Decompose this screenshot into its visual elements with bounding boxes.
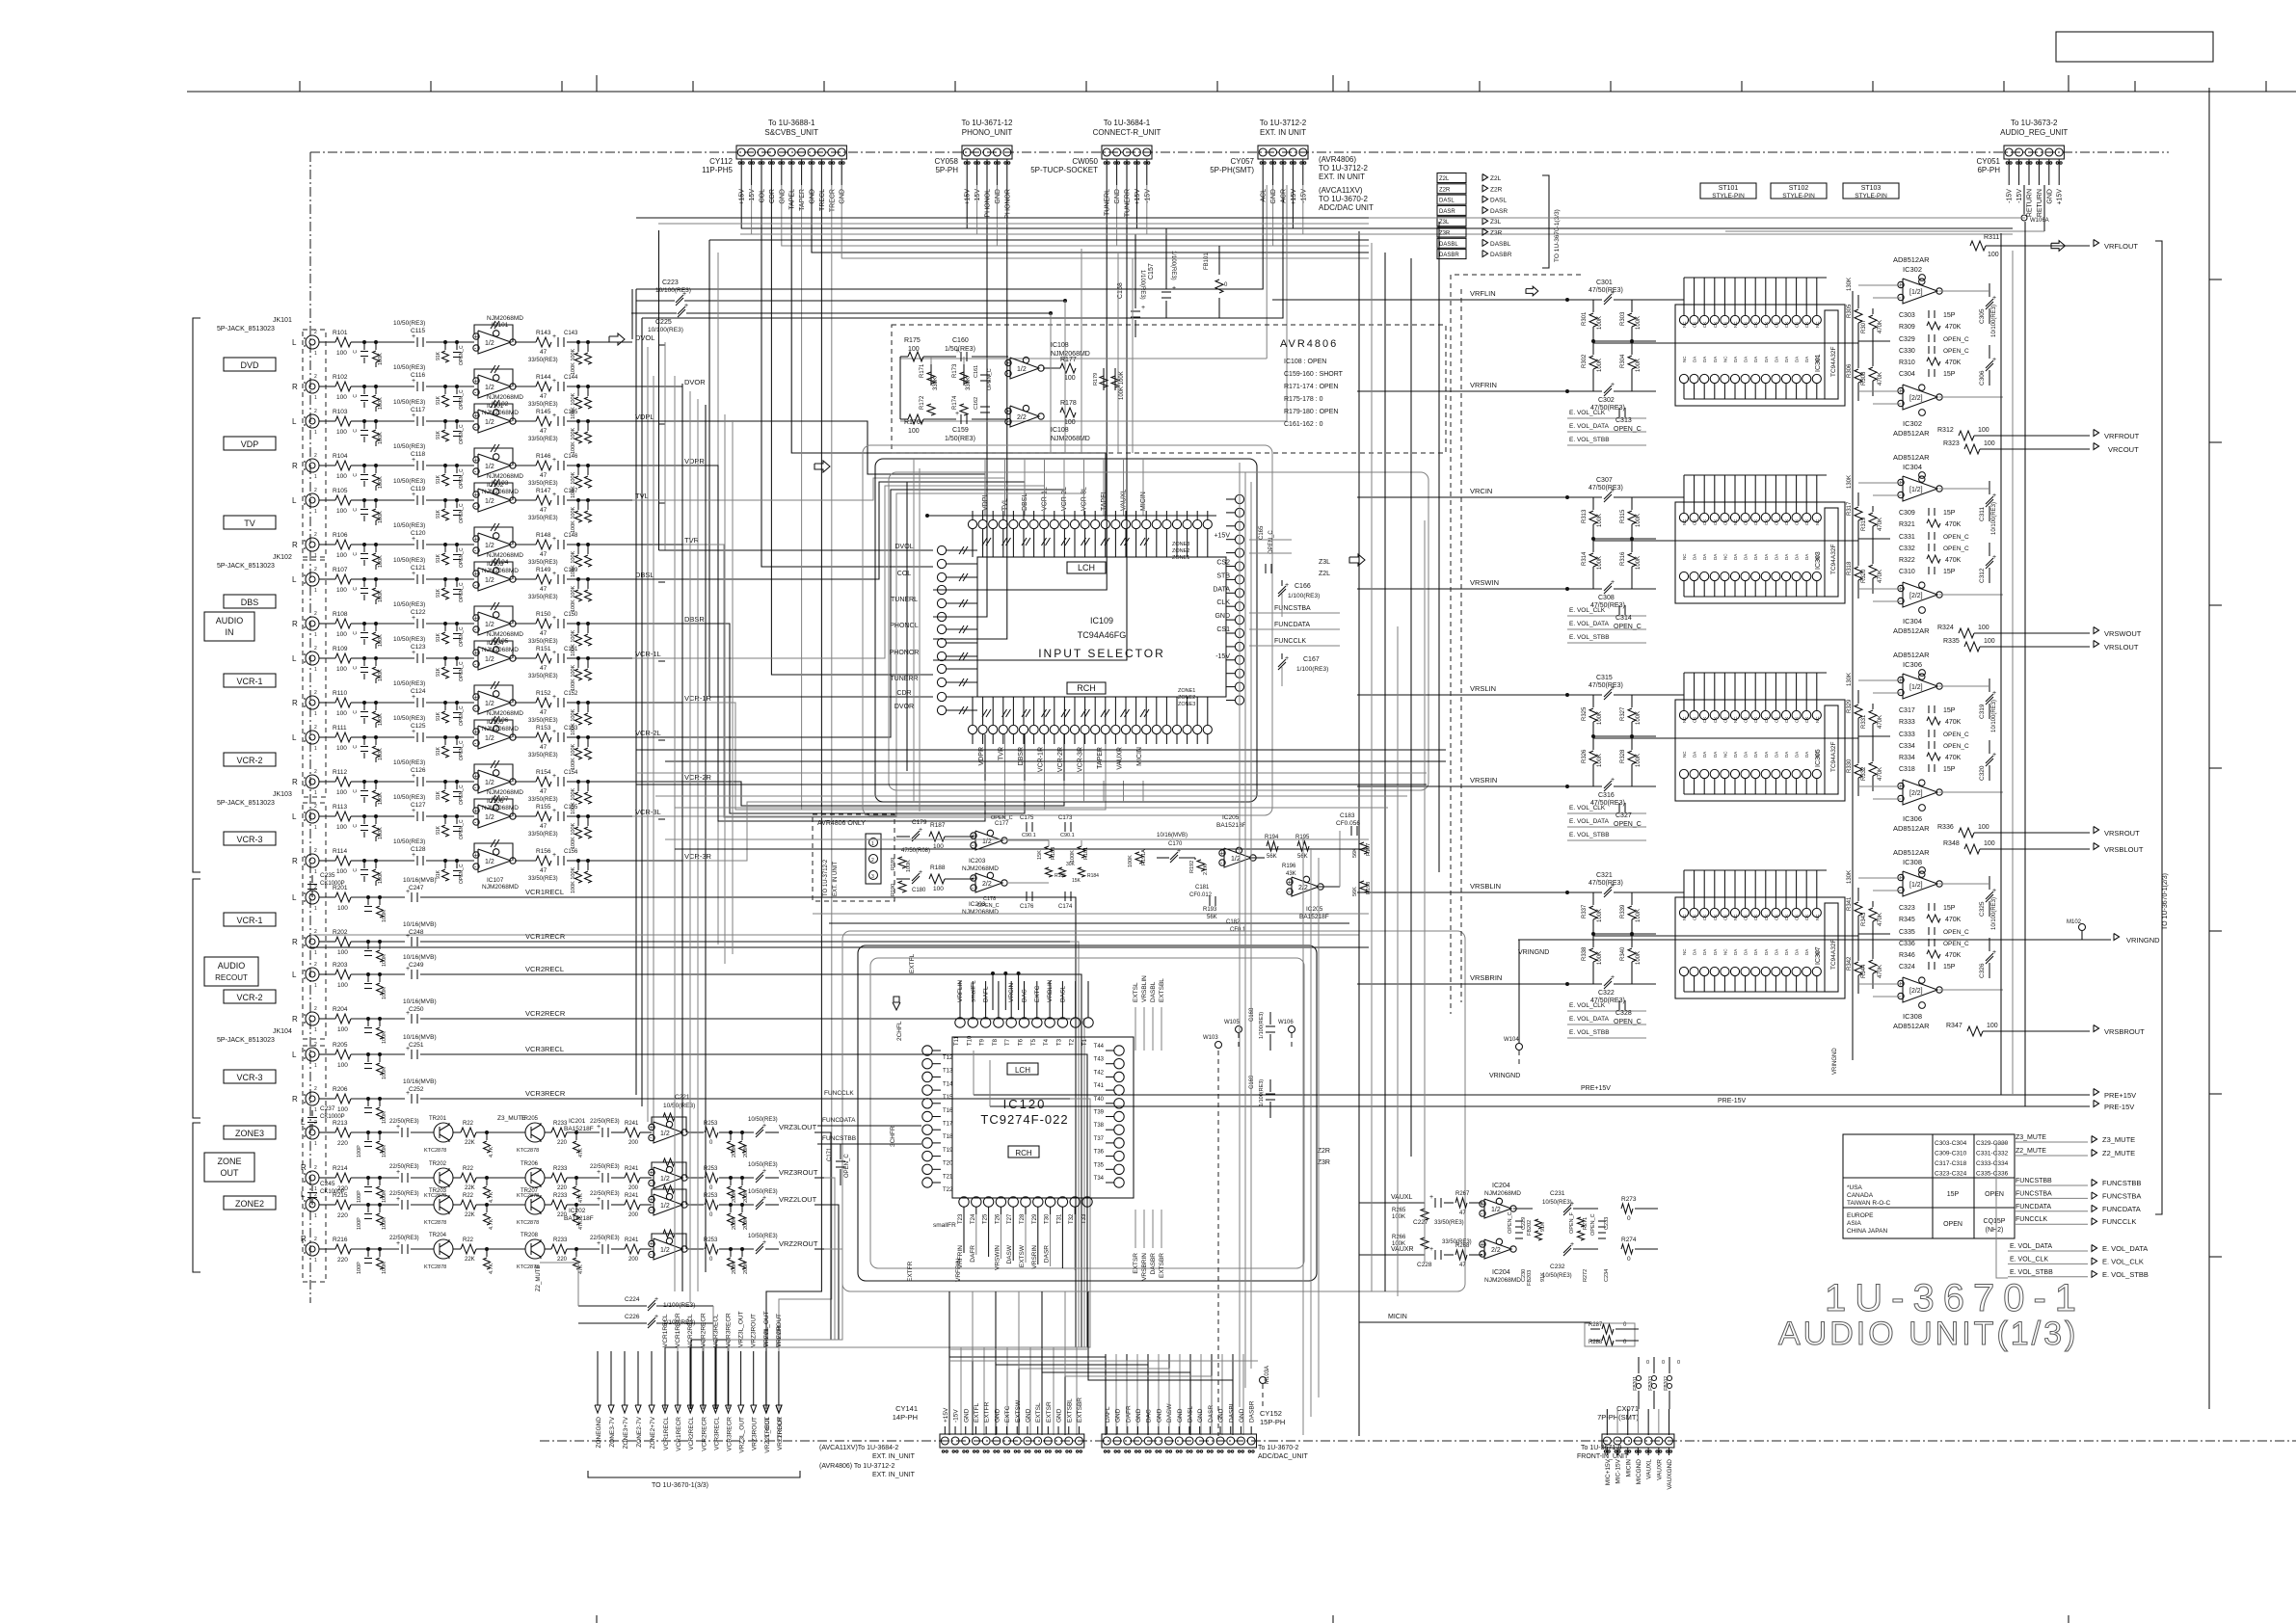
svg-text:VCR-1R: VCR-1R <box>1038 747 1045 772</box>
svg-text:47: 47 <box>540 823 547 830</box>
svg-text:PRE+15V: PRE+15V <box>2104 1091 2136 1100</box>
svg-text:VCR-3R: VCR-3R <box>1078 747 1084 772</box>
svg-text:+: + <box>919 827 922 834</box>
svg-text:DVOL: DVOL <box>894 544 913 550</box>
svg-text:ADC/DAC_UNIT: ADC/DAC_UNIT <box>1258 1453 1308 1460</box>
svg-text:Z2R: Z2R <box>1439 187 1451 193</box>
svg-text:C168: C168 <box>1249 1007 1255 1022</box>
svg-text:AD8512AR: AD8512AR <box>1893 255 1930 264</box>
svg-text:2: 2 <box>314 848 317 854</box>
svg-text:R102: R102 <box>333 374 348 381</box>
svg-text:10/50(RE3): 10/50(RE3) <box>393 320 425 327</box>
svg-text:C: C <box>353 508 359 512</box>
svg-text:TAIWAN R-O-C: TAIWAN R-O-C <box>1847 1200 1890 1207</box>
svg-text:100K: 100K <box>378 555 384 568</box>
wire COL from CY112 to IC109 <box>761 185 933 567</box>
svg-text:TVR: TVR <box>999 747 1005 760</box>
svg-text:1/2: 1/2 <box>485 780 494 786</box>
svg-text:VRZ3ROUT: VRZ3ROUT <box>752 1417 759 1450</box>
svg-text:VRBLIN: VRBLIN <box>1047 979 1054 1002</box>
CX071 vertical pin wires rising <box>1606 1409 1608 1435</box>
capacitor C162 OPEN_C <box>980 406 990 408</box>
svg-text:200K: 200K <box>732 1145 737 1157</box>
svg-text:VRSRIN: VRSRIN <box>1031 1245 1038 1269</box>
svg-text:VRSBLOUT: VRSBLOUT <box>2104 845 2144 854</box>
svg-text:-15V: -15V <box>2016 189 2023 203</box>
svg-text:DBSR: DBSR <box>684 615 705 624</box>
svg-text:NJM2068MD: NJM2068MD <box>487 789 523 796</box>
svg-text:15P-PH: 15P-PH <box>1260 1418 1285 1426</box>
IC109 bottom slash marks <box>982 709 987 717</box>
svg-text:FUNCSTBA: FUNCSTBA <box>1274 605 1311 612</box>
svg-text:L: L <box>301 1190 306 1199</box>
svg-text:R172: R172 <box>920 395 925 410</box>
svg-text:C324: C324 <box>1899 964 1915 971</box>
svg-text:E. VOL_CLK: E. VOL_CLK <box>2102 1257 2144 1265</box>
svg-text:OPEN_C: OPEN_C <box>1614 1019 1642 1025</box>
svg-text:PRE-15V: PRE-15V <box>1718 1098 1747 1104</box>
svg-text:100: 100 <box>337 905 348 912</box>
resistor R174 330K <box>960 404 968 415</box>
svg-text:+: + <box>412 571 415 577</box>
svg-text:R307: R307 <box>1861 319 1867 333</box>
svg-text:C223: C223 <box>662 279 679 286</box>
svg-text:C182: C182 <box>1226 919 1241 925</box>
svg-text:R: R <box>292 778 298 786</box>
svg-text:Z3_MUTE: Z3_MUTE <box>497 1115 526 1122</box>
svg-text:2: 2 <box>314 1237 317 1242</box>
input channel row VCR-3R: jack, resistor R114 100, op-amp IC107 NJM2068MD <box>306 854 319 867</box>
svg-text:R267: R267 <box>1455 1191 1470 1197</box>
svg-text:2: 2 <box>314 769 317 775</box>
svg-text:OPEN_C: OPEN_C <box>1943 732 1969 738</box>
svg-text:DA: DA <box>1733 554 1738 560</box>
svg-text:+: + <box>650 1170 654 1177</box>
svg-text:L: L <box>292 338 297 347</box>
svg-text:0: 0 <box>1646 1360 1649 1366</box>
svg-text:2: 2 <box>314 488 317 493</box>
svg-text:22K: 22K <box>465 1212 475 1218</box>
svg-text:10/16(MVB): 10/16(MVB) <box>403 877 437 884</box>
svg-text:FB203: FB203 <box>1527 1270 1533 1286</box>
svg-text:R107: R107 <box>333 567 348 573</box>
svg-text:R305: R305 <box>1847 304 1853 318</box>
svg-text:IC306: IC306 <box>1903 660 1922 669</box>
svg-text:100K: 100K <box>1597 316 1603 330</box>
svg-text:NC: NC <box>1682 716 1687 723</box>
block internal bus wires <box>1656 891 1684 893</box>
IC109 outer routing loop rectangles <box>875 459 1257 802</box>
svg-text:RETURN: RETURN <box>2037 189 2043 217</box>
wire GND bus from CY112 <box>782 185 1369 246</box>
resistors R194 R195 56K <box>1267 841 1278 851</box>
svg-text:2: 2 <box>314 330 317 335</box>
input channel row VDPR: jack, resistor R104 100, op-amp IC102 NJM2068MD <box>306 459 319 472</box>
svg-text:T24: T24 <box>971 1213 976 1224</box>
svg-text:TC94A32F: TC94A32F <box>1830 347 1837 377</box>
svg-text:OPEN_C: OPEN_C <box>1508 1211 1513 1234</box>
svg-text:CK: CK <box>1764 322 1769 328</box>
input channel row DBSL: jack, resistor R107 100, op-amp IC104 NJM2068MD <box>306 572 319 586</box>
svg-text:10/50(RE3): 10/50(RE3) <box>1542 1273 1572 1279</box>
zone out wires to trunk verticals <box>691 1132 831 1409</box>
svg-text:R174: R174 <box>952 395 958 410</box>
input channel row VCR-1R: jack, resistor R110 100, op-amp IC105 NJM2068MD <box>306 696 319 709</box>
svg-text:CK: CK <box>1722 717 1727 723</box>
svg-text:T27: T27 <box>1007 1213 1013 1224</box>
svg-text:CK: CK <box>1774 519 1778 525</box>
svg-text:5P-TUCP-SOCKET: 5P-TUCP-SOCKET <box>1030 166 1098 174</box>
svg-text:C: C <box>353 824 359 828</box>
svg-text:BA15218F: BA15218F <box>1299 914 1329 920</box>
jumper W103 dashed <box>1217 1051 1219 1436</box>
svg-text:OPEN: OPEN <box>1985 1191 2004 1198</box>
svg-text:(AVR4806): (AVR4806) <box>1319 155 1356 164</box>
svg-text:+: + <box>1429 1194 1433 1201</box>
svg-text:R: R <box>301 1235 307 1243</box>
svg-text:GND: GND <box>963 1408 970 1423</box>
svg-text:R272: R272 <box>1583 1269 1589 1282</box>
wire GND2 from CY112 <box>812 185 1369 253</box>
svg-text:-15V: -15V <box>2007 189 2014 203</box>
svg-text:130K: 130K <box>1847 278 1853 291</box>
svg-text:1: 1 <box>871 841 874 847</box>
svg-text:10/50(RE3): 10/50(RE3) <box>393 715 425 722</box>
svg-text:R233: R233 <box>553 1193 568 1199</box>
svg-text:R187: R187 <box>930 822 946 829</box>
jumper W106 <box>1289 1026 1295 1033</box>
svg-text:+: + <box>1611 777 1615 784</box>
svg-text:200K: 200K <box>743 1217 749 1230</box>
svg-text:VCR3RECL: VCR3RECL <box>713 1417 720 1450</box>
svg-text:VDPR: VDPR <box>684 457 705 466</box>
svg-text:E. VOL_STBB: E. VOL_STBB <box>2102 1270 2149 1279</box>
resistor R320 470K rotated (lower) <box>1872 555 1874 564</box>
svg-text:R340: R340 <box>1620 946 1626 961</box>
output resistor R323 100 and VRCOUT <box>1964 444 1980 454</box>
svg-text:DA: DA <box>1804 357 1809 362</box>
svg-text:R193: R193 <box>1203 907 1217 913</box>
svg-text:FUNCSTBA: FUNCSTBA <box>2016 1190 2052 1197</box>
svg-text:VCR2RECL: VCR2RECL <box>688 1417 695 1450</box>
svg-text:DASR: DASR <box>1044 1245 1051 1263</box>
svg-text:C305: C305 <box>1979 308 1986 324</box>
svg-text:FUNCDATA: FUNCDATA <box>2016 1204 2051 1211</box>
svg-text:+: + <box>762 1123 766 1130</box>
svg-text:VAUXR: VAUXR <box>1117 747 1124 770</box>
svg-text:C321: C321 <box>1596 872 1613 879</box>
IC305 bottom pin row 15..28 <box>1679 769 1688 778</box>
svg-text:T4: T4 <box>1044 1038 1050 1046</box>
svg-text:DA: DA <box>1774 752 1778 758</box>
svg-text:130K: 130K <box>1847 870 1853 884</box>
svg-text:DA: DA <box>1713 554 1718 560</box>
svg-text:TRECL: TRECL <box>819 189 826 211</box>
svg-text:R265: R265 <box>1392 1208 1406 1213</box>
svg-text:100K: 100K <box>1597 556 1603 570</box>
svg-text:CK: CK <box>1804 322 1809 328</box>
svg-text:VRFLIN: VRFLIN <box>1470 289 1496 298</box>
svg-text:+: + <box>1611 290 1615 297</box>
svg-text:C333: C333 <box>1899 732 1915 738</box>
svg-text:TR203: TR203 <box>429 1188 447 1194</box>
thick bus through IC middle <box>1593 342 1858 344</box>
svg-text:100: 100 <box>337 1062 348 1069</box>
svg-text:15P: 15P <box>1943 569 1956 575</box>
svg-text:E. VOL_CLK: E. VOL_CLK <box>1569 1002 1606 1009</box>
svg-text:100K: 100K <box>382 1190 387 1203</box>
svg-text:[1/2]: [1/2] <box>1909 487 1923 493</box>
svg-text:DA: DA <box>1764 357 1769 362</box>
svg-text:KTC2878: KTC2878 <box>517 1148 539 1154</box>
svg-text:C: C <box>353 789 359 793</box>
svg-text:VRINGND: VRINGND <box>1832 1048 1838 1075</box>
svg-text:C179: C179 <box>912 819 927 826</box>
IC303 top pin row 14..1 <box>1679 513 1688 521</box>
svg-text:ZONE2: ZONE2 <box>235 1199 264 1209</box>
svg-text:R323: R323 <box>1943 440 1960 447</box>
svg-text:1/2: 1/2 <box>485 464 494 470</box>
capacitors C175 C173 <box>1026 822 1028 832</box>
svg-text:AVR4806 ONLY: AVR4806 ONLY <box>817 820 866 827</box>
input channel row VCR-2R: jack, resistor R112 100, op-amp IC106 NJM2068MD <box>306 775 319 788</box>
resistor R329 130K rotated <box>1857 690 1859 704</box>
svg-text:+: + <box>474 730 478 736</box>
svg-text:33/50(RE3): 33/50(RE3) <box>528 718 558 724</box>
op-amp IC108 NJM2068MD (1/2) <box>1010 358 1039 379</box>
svg-text:+: + <box>474 537 478 544</box>
svg-text:2: 2 <box>314 885 317 891</box>
svg-text:EXTSW: EXTSW <box>1015 1399 1022 1423</box>
svg-text:91K: 91K <box>436 632 441 642</box>
svg-text:PRE+15V: PRE+15V <box>1581 1085 1611 1092</box>
svg-text:VCR2RECL: VCR2RECL <box>525 965 564 973</box>
svg-text:+: + <box>412 852 415 859</box>
svg-text:47K: 47K <box>578 1148 584 1157</box>
svg-text:C149: C149 <box>564 568 578 573</box>
svg-text:-15V: -15V <box>749 189 756 203</box>
svg-text:+: + <box>552 457 556 464</box>
svg-text:+: + <box>597 1240 601 1247</box>
svg-text:T19: T19 <box>943 1148 953 1154</box>
block internal bus wires <box>1656 496 1684 498</box>
svg-text:L: L <box>292 1051 297 1059</box>
svg-text:C331-C332: C331-C332 <box>1976 1151 2009 1157</box>
connector CY051 <box>2004 146 2064 159</box>
svg-text:1: 1 <box>314 950 317 956</box>
svg-text:T14: T14 <box>943 1081 953 1087</box>
svg-text:100: 100 <box>336 473 347 480</box>
svg-text:C: C <box>353 350 359 354</box>
svg-text:VDPL: VDPL <box>635 412 654 421</box>
svg-text:2: 2 <box>871 858 874 864</box>
svg-text:CDR: CDR <box>896 690 911 697</box>
resistor R341 130K rotated <box>1857 888 1859 901</box>
svg-text:200K: 200K <box>743 1262 749 1274</box>
rec-out row VCR2RECR: jack, resistor R204 100, capacitor C250 <box>306 1012 319 1025</box>
svg-text:OPEN_C: OPEN_C <box>459 424 465 444</box>
IC307 bottom pin row 15..28 <box>1679 967 1688 975</box>
TRECL TRECR arrows <box>763 1405 769 1413</box>
svg-text:CK: CK <box>1693 322 1697 328</box>
svg-text:1/2: 1/2 <box>660 1131 670 1137</box>
svg-text:1: 1 <box>314 509 317 515</box>
svg-text:L: L <box>292 812 297 821</box>
svg-text:AUDIO: AUDIO <box>218 961 246 971</box>
svg-text:1/2: 1/2 <box>485 735 494 742</box>
svg-text:C312: C312 <box>1979 568 1986 583</box>
svg-text:C301: C301 <box>1596 279 1613 286</box>
right outputs bracket vertical line <box>2155 241 2162 1214</box>
vertical wires just left of IC109 <box>913 459 915 802</box>
svg-text:NC: NC <box>1815 914 1820 920</box>
rec-out trunk vertical wires going down <box>665 897 1076 1409</box>
svg-text:C237: C237 <box>320 1105 335 1112</box>
connector CY058 <box>962 146 1012 159</box>
svg-text:R105: R105 <box>333 488 348 494</box>
svg-text:+: + <box>396 1240 400 1247</box>
svg-text:DATA: DATA <box>1213 586 1230 593</box>
svg-text:10/100(RE3): 10/100(RE3) <box>648 327 683 333</box>
svg-text:1: 1 <box>314 983 317 989</box>
svg-text:EXTFR: EXTFR <box>984 1401 991 1423</box>
svg-text:R: R <box>292 1095 298 1104</box>
svg-text:470K: 470K <box>1878 372 1883 386</box>
svg-text:33/50(RE3): 33/50(RE3) <box>528 753 558 758</box>
svg-text:R143: R143 <box>536 330 551 336</box>
svg-text:CY152: CY152 <box>1260 1409 1282 1418</box>
svg-text:100: 100 <box>336 710 347 717</box>
svg-text:1/2: 1/2 <box>1017 366 1027 373</box>
svg-text:CK: CK <box>1744 915 1749 920</box>
svg-text:CK: CK <box>1713 519 1718 525</box>
svg-text:+: + <box>1006 360 1010 367</box>
op-amp IC304 AD8512AR (2/2) <box>1903 582 1937 607</box>
svg-text:+: + <box>972 876 975 883</box>
svg-text:ZONE3-7V: ZONE3-7V <box>609 1416 616 1447</box>
svg-text:1/100(RE3): 1/100(RE3) <box>1170 251 1176 280</box>
svg-text:220: 220 <box>557 1185 568 1191</box>
svg-text:E. VOL_DATA: E. VOL_DATA <box>2102 1244 2148 1253</box>
svg-text:100: 100 <box>1978 427 1989 434</box>
svg-text:C151: C151 <box>564 647 578 652</box>
svg-text:CK: CK <box>1784 717 1789 723</box>
svg-text:TC94A32F: TC94A32F <box>1830 742 1837 772</box>
open arrow at IC109 right <box>1349 554 1365 566</box>
svg-text:22/50(RE3): 22/50(RE3) <box>389 1119 419 1125</box>
svg-text:OPEN_C: OPEN_C <box>1943 545 1969 552</box>
svg-text:+15V: +15V <box>1291 189 1297 205</box>
svg-text:200K: 200K <box>732 1190 737 1203</box>
svg-text:TC9274F-022: TC9274F-022 <box>980 1112 1068 1127</box>
svg-text:CW050: CW050 <box>1072 157 1098 166</box>
svg-text:CK: CK <box>1774 915 1778 920</box>
svg-text:R345: R345 <box>1899 917 1915 923</box>
svg-text:47: 47 <box>1459 1211 1466 1216</box>
svg-text:E. VOL_STBB: E. VOL_STBB <box>1569 634 1610 641</box>
svg-text:C171: C171 <box>827 1147 833 1161</box>
svg-text:TO 1U-3670-1(2/3): TO 1U-3670-1(2/3) <box>2162 873 2169 930</box>
svg-text:C325: C325 <box>1979 901 1986 917</box>
resistors R301 R302 100K <box>1592 300 1594 312</box>
wires above IC120 from DAC bus <box>992 973 994 1010</box>
svg-text:100K: 100K <box>378 871 384 884</box>
chassis dash-dot boundary top <box>310 151 2169 153</box>
svg-text:DA: DA <box>1702 949 1707 955</box>
svg-text:FUNCCLK: FUNCCLK <box>824 1090 854 1097</box>
svg-text:TC94A32F: TC94A32F <box>1830 940 1837 970</box>
svg-text:OPEN_C: OPEN_C <box>991 815 1013 821</box>
input channel row TVL: jack, resistor R105 100, op-amp IC103 NJM2068MD <box>306 493 319 507</box>
svg-text:DA: DA <box>1795 554 1800 560</box>
svg-text:+: + <box>1570 1201 1574 1208</box>
resistors R315 R316 100K <box>1631 497 1633 510</box>
svg-text:C313: C313 <box>1615 417 1632 424</box>
AVR4806 option dashed box <box>892 325 1446 453</box>
resistor R307 470K rotated <box>1872 308 1874 314</box>
svg-text:1/100(RE3): 1/100(RE3) <box>1259 1079 1265 1106</box>
svg-text:C122: C122 <box>411 609 426 616</box>
svg-text:1/2: 1/2 <box>485 814 494 821</box>
IC120 body outline <box>952 1037 1134 1198</box>
svg-text:C249: C249 <box>409 962 424 969</box>
rec-out row VCR2RECL: jack, resistor R203 100, capacitor C249 <box>306 968 319 981</box>
svg-text:PHONOR: PHONOR <box>1004 189 1011 219</box>
svg-text:GND: GND <box>995 189 1001 204</box>
svg-text:2CHFL: 2CHFL <box>896 1021 903 1041</box>
svg-text:+15V: +15V <box>965 189 972 205</box>
W104 jumper and VRINGND label bottom left of right column <box>1516 1044 1523 1051</box>
svg-text:+15V: +15V <box>2057 189 2064 205</box>
svg-text:NJM2068MD: NJM2068MD <box>487 631 523 638</box>
svg-text:1/2: 1/2 <box>485 498 494 505</box>
svg-text:CK: CK <box>1713 915 1718 920</box>
svg-text:IC108: IC108 <box>1051 342 1069 349</box>
svg-text:100K: 100K <box>382 954 387 967</box>
svg-text:CY141: CY141 <box>895 1404 918 1413</box>
svg-text:3: 3 <box>871 874 874 880</box>
svg-text:220: 220 <box>337 1185 348 1192</box>
svg-text:GND: GND <box>1135 1408 1142 1423</box>
svg-text:4.7K: 4.7K <box>489 1191 494 1203</box>
svg-text:100: 100 <box>337 949 348 956</box>
op-amp IC203 NJM2068MD (2/2) <box>975 873 1002 892</box>
svg-text:R337: R337 <box>1582 904 1588 918</box>
resistors R325 R326 100K <box>1592 695 1594 707</box>
svg-text:T37: T37 <box>1094 1136 1105 1142</box>
svg-text:C155: C155 <box>564 805 578 811</box>
svg-text:NC: NC <box>1815 321 1820 328</box>
svg-text:C234: C234 <box>1604 1269 1610 1282</box>
svg-text:W103: W103 <box>1203 1035 1218 1041</box>
input channel row DBSR: jack, resistor R108 100, op-amp IC104 NJM2068MD <box>306 617 319 630</box>
svg-text:VDP: VDP <box>241 439 259 449</box>
svg-text:ZONEGND: ZONEGND <box>596 1417 602 1449</box>
svg-text:100K: 100K <box>382 910 387 922</box>
svg-text:DASL: DASL <box>1059 986 1066 1002</box>
svg-text:33/50(RE3): 33/50(RE3) <box>528 516 558 521</box>
svg-text:C124: C124 <box>411 688 426 695</box>
svg-text:R324: R324 <box>1937 625 1954 631</box>
svg-text:47K: 47K <box>578 1193 584 1203</box>
svg-text:10/50(RE3): 10/50(RE3) <box>393 478 425 485</box>
svg-text:NC: NC <box>1722 751 1727 758</box>
svg-text:10/50(RE3): 10/50(RE3) <box>393 636 425 643</box>
svg-text:Z3R: Z3R <box>1439 231 1451 237</box>
svg-text:C323: C323 <box>1899 905 1915 912</box>
svg-text:+: + <box>650 1241 654 1248</box>
svg-text:220: 220 <box>557 1140 568 1146</box>
